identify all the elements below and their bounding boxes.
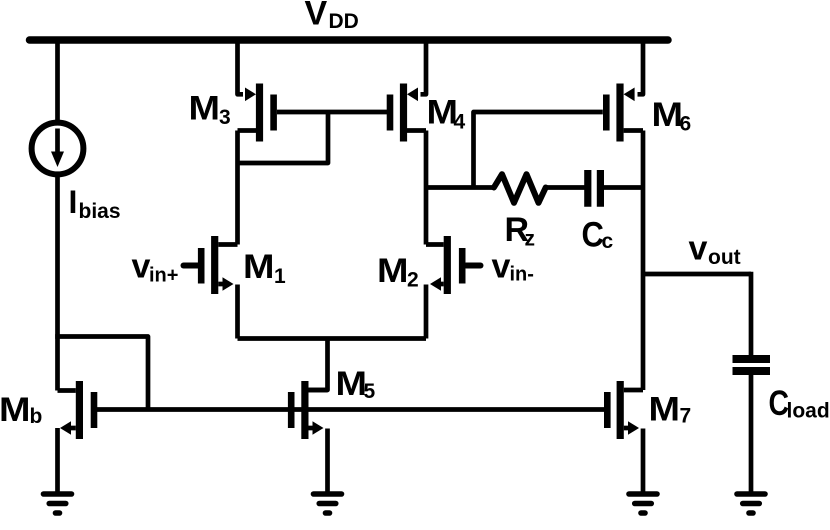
svg-text:out: out (708, 246, 741, 269)
transistor M1 (184, 236, 238, 294)
svg-text:V: V (305, 0, 328, 33)
transistor M7 (607, 381, 643, 439)
wire tail to M5 drain (309, 339, 328, 391)
svg-text:M: M (652, 96, 684, 134)
svg-text:M: M (0, 391, 31, 429)
svg-text:z: z (525, 228, 536, 251)
svg-text:3: 3 (219, 106, 231, 129)
capacitor Cc (588, 170, 601, 207)
label Rz (505, 211, 536, 251)
ground under Mb (44, 494, 72, 513)
svg-text:v: v (132, 248, 151, 286)
transistor M5 (291, 381, 327, 439)
label Ibias (69, 184, 121, 223)
wire M6 drain to M7 drain (641, 131, 646, 391)
svg-text:6: 6 (680, 113, 692, 136)
svg-text:M: M (377, 252, 409, 290)
label M3 (189, 90, 231, 130)
svg-text:5: 5 (364, 380, 376, 403)
transistor Mb (58, 381, 95, 439)
wire Mb diode loop (55, 337, 148, 410)
resistor Rz (494, 174, 546, 203)
svg-text:c: c (602, 230, 614, 253)
label Cc (582, 215, 614, 255)
ground under Cload (737, 494, 765, 513)
svg-text:4: 4 (454, 111, 466, 134)
svg-text:7: 7 (680, 405, 692, 428)
svg-text:M: M (649, 391, 681, 429)
svg-text:b: b (30, 405, 43, 428)
svg-text:load: load (787, 400, 830, 423)
transistor M2 (426, 236, 481, 294)
ground under M5 (314, 494, 342, 513)
label M4 (427, 94, 466, 134)
wire Cc to M6 drain (604, 185, 643, 190)
svg-text:DD: DD (329, 10, 359, 33)
svg-text:in+: in+ (149, 265, 178, 287)
capacitor Cload (733, 359, 771, 371)
label M1 (243, 248, 286, 288)
label VDD (305, 0, 359, 33)
svg-text:v: v (492, 248, 511, 286)
svg-text:v: v (689, 230, 708, 268)
wire VDD to M3 source (238, 38, 244, 94)
transistor M6 (606, 84, 643, 142)
svg-text:2: 2 (407, 269, 419, 292)
wire M5 source to ground (325, 429, 330, 494)
VDD rail (30, 36, 669, 44)
wire node to M6 gate (474, 112, 603, 188)
wire M3 drain to M1 drain (235, 131, 240, 245)
wire diff pair tail (238, 336, 427, 341)
label M2 (377, 252, 419, 292)
wire VDD to M6 source (638, 38, 644, 94)
wire M3/M4 gate link (277, 110, 387, 115)
wire VDD to M4 source (421, 38, 427, 94)
label vout (689, 230, 741, 270)
wire Mb source to ground (55, 428, 60, 493)
wire VDD to Ibias (55, 38, 60, 124)
wire M7 source to ground (641, 429, 646, 494)
svg-text:in-: in- (510, 264, 534, 286)
svg-text:bias: bias (79, 200, 121, 223)
current source Ibias (32, 123, 84, 175)
wire gate bias line Mb-M5-M7 (96, 407, 605, 412)
label vin+ (132, 248, 179, 287)
svg-text:M: M (189, 90, 221, 128)
transistor M4 (390, 84, 426, 142)
label M6 (652, 96, 692, 136)
label M5 (336, 365, 376, 403)
wire Ibias to Mb drain (55, 174, 60, 391)
wire M2 source to tail (424, 285, 429, 339)
svg-text:M: M (243, 248, 275, 286)
wire Cload to ground (749, 371, 754, 493)
label vin- (492, 248, 534, 286)
label Cload (769, 383, 830, 423)
node vout wire (643, 272, 751, 277)
svg-text:1: 1 (274, 265, 286, 288)
svg-text:I: I (69, 184, 78, 220)
wire M3 diode loop (238, 112, 329, 163)
ground under M7 (629, 494, 657, 513)
wire M4 drain to M2 drain (424, 131, 429, 245)
wire vout to Cload (749, 272, 754, 355)
label M7 (649, 391, 692, 429)
svg-text:M: M (336, 365, 368, 403)
wire M1 source to tail (235, 285, 240, 339)
wire M4 drain node to Rz (426, 185, 495, 190)
transistor M3 (238, 84, 274, 142)
wire Rz to Cc (546, 185, 585, 190)
label Mb (0, 391, 42, 429)
